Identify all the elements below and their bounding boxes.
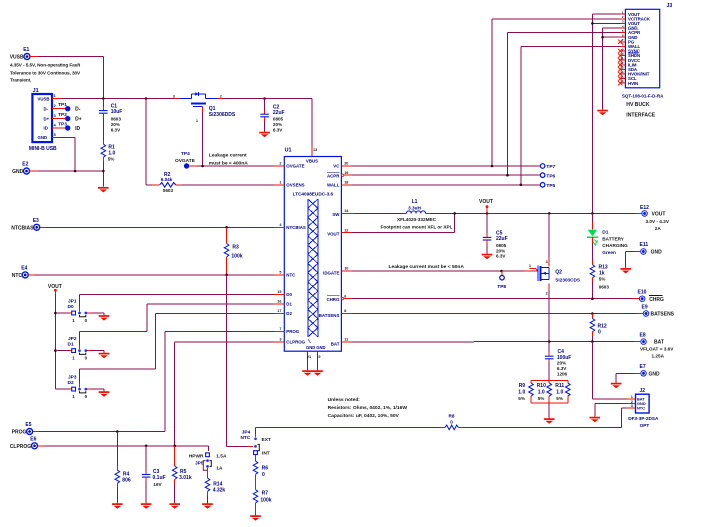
svg-text:D1: D1 (602, 230, 608, 236)
svg-text:11: 11 (344, 338, 348, 342)
test point TP6 (540, 173, 555, 180)
svg-text:CHRG: CHRG (649, 297, 664, 303)
svg-text:BATSENS: BATSENS (319, 313, 340, 318)
svg-text:5%: 5% (108, 156, 115, 161)
resistor R13 1k (590, 260, 609, 299)
node VOUT net label (power port) (479, 199, 493, 214)
svg-text:HPWR: HPWR (189, 453, 204, 459)
svg-text:Resistors: Ohms, 0402, 1%, 1/1: Resistors: Ohms, 0402, 1%, 1/16W (328, 405, 408, 411)
resistor R6 0 (253, 461, 268, 490)
node: R4/PROG junction (116, 430, 119, 433)
svg-text:0.1uF: 0.1uF (153, 475, 166, 481)
svg-text:5: 5 (54, 133, 56, 137)
jumper JP5 HPWR (189, 453, 227, 478)
svg-text:D1: D1 (286, 302, 292, 307)
svg-text:15: 15 (277, 290, 281, 294)
node VOUT net label (JP column) (48, 284, 62, 389)
wire J1 pin2 to TP1 (52, 108, 65, 110)
test point TP5 (540, 183, 555, 190)
svg-text:EXT: EXT (262, 437, 271, 443)
node: NTC/JP4 junction (225, 274, 228, 277)
transistor Q1 Si2306DDS (173, 92, 236, 123)
note: leakage current 400nA (209, 152, 248, 166)
svg-text:VUSB: VUSB (10, 55, 24, 61)
ground (C2) (259, 131, 270, 137)
wire IDGATE net (352, 270, 537, 272)
svg-text:1: 1 (54, 94, 56, 98)
svg-text:XFL4020-332MEC: XFL4020-332MEC (397, 217, 437, 222)
wire NTC down to JP4 common (227, 275, 253, 447)
terminal E4 (NTC) (12, 266, 28, 279)
wire E7 to ground (616, 373, 640, 382)
inductor L1 3.3uH (341, 199, 430, 213)
svg-text:SQT-108-01-F-D-RA: SQT-108-01-F-D-RA (622, 94, 664, 99)
wire NTC line to JP4 (256, 427, 446, 437)
svg-text:R6: R6 (262, 465, 269, 471)
node: OVGATE junction (201, 165, 204, 168)
svg-text:GND: GND (12, 169, 24, 175)
svg-text:E6: E6 (30, 437, 36, 443)
svg-text:R5: R5 (180, 469, 187, 475)
wire GND: E2 line (30, 170, 104, 172)
svg-text:VBUS: VBUS (306, 158, 318, 163)
svg-text:22uF: 22uF (273, 110, 285, 116)
svg-text:E7: E7 (640, 364, 646, 370)
svg-text:Tolerance to 30V Continous, 30: Tolerance to 30V Continous, 30V (10, 70, 81, 75)
test point TP1 (D-) (58, 102, 81, 112)
svg-text:GND: GND (38, 135, 48, 140)
transistor Q2 Si2303CDS (529, 213, 580, 341)
svg-text:3: 3 (173, 94, 175, 98)
ground (U1 pin9) (312, 370, 323, 376)
wire NTCBIAS net (40, 226, 274, 228)
ground (R14) (202, 503, 213, 509)
wire J1 pin1 VUSB stub (52, 98, 62, 100)
ground (C4/R10) (544, 418, 555, 424)
svg-text:2: 2 (279, 162, 281, 166)
svg-text:BAT: BAT (654, 340, 664, 346)
svg-text:CHRG: CHRG (326, 297, 340, 302)
svg-text:OVGATE: OVGATE (175, 158, 196, 164)
wire BAT to J2 pin1 (592, 342, 626, 399)
ground (J3 GND) (597, 109, 608, 115)
svg-text:GND: GND (649, 372, 661, 378)
svg-text:JP4: JP4 (242, 429, 251, 435)
note: L1 footprint (380, 217, 452, 229)
svg-text:ID: ID (44, 126, 48, 131)
svg-text:OVSENS: OVSENS (286, 183, 304, 188)
svg-text:20: 20 (344, 162, 348, 166)
svg-text:Q2: Q2 (555, 270, 562, 276)
svg-text:3.0V - 4.2V: 3.0V - 4.2V (646, 219, 670, 224)
svg-text:E1: E1 (23, 47, 29, 53)
svg-text:D0: D0 (68, 304, 74, 310)
svg-text:TP7: TP7 (546, 164, 555, 170)
svg-text:6.3V: 6.3V (273, 127, 283, 132)
ground (C5) (482, 253, 493, 259)
note: unless noted (328, 397, 408, 419)
svg-text:TP4: TP4 (181, 151, 190, 157)
svg-text:3.01k: 3.01k (179, 475, 192, 481)
svg-text:TP2: TP2 (58, 112, 67, 118)
svg-text:1.25A: 1.25A (652, 354, 665, 359)
svg-text:Si2303CDS: Si2303CDS (555, 278, 580, 283)
svg-text:16: 16 (277, 300, 281, 304)
svg-text:9: 9 (318, 355, 320, 359)
svg-text:Footprint can mount XFL or XPL: Footprint can mount XFL or XPL (380, 224, 452, 229)
svg-text:E12: E12 (640, 205, 649, 211)
op-amp/IC U1 LTC4098EUDC-3.6 (274, 148, 352, 352)
resistor R1 1.0 (101, 140, 116, 186)
svg-text:TP6: TP6 (546, 173, 555, 179)
svg-text:D+: D+ (44, 116, 50, 121)
wire CLPROG net (38, 342, 274, 451)
svg-text:5%: 5% (556, 396, 563, 401)
resistor R3 100k (224, 227, 242, 275)
svg-text:HVIN: HVIN (628, 81, 638, 86)
terminal E10 (CHRG) (638, 290, 665, 303)
node: R13/CHRG junction (591, 297, 594, 300)
svg-text:1.0: 1.0 (538, 389, 545, 395)
svg-text:OVGATE: OVGATE (286, 164, 304, 169)
svg-text:3.3uH: 3.3uH (408, 205, 421, 210)
wire VUSB: E1 to top rail (30, 57, 103, 99)
svg-text:PROG: PROG (286, 329, 300, 334)
svg-text:5%: 5% (538, 396, 545, 401)
wire J2 pin2 to ground (595, 404, 627, 416)
terminal E6 (CLPROG) (10, 437, 38, 450)
svg-text:0: 0 (598, 330, 601, 336)
resistor R9 1.0 (518, 380, 533, 403)
svg-text:CHARGING: CHARGING (602, 243, 628, 248)
svg-text:L1: L1 (412, 199, 418, 205)
wire PROG net (33, 332, 274, 432)
node: R12/BATSENS junction (591, 312, 594, 315)
resistor R2 6.04k (146, 172, 182, 193)
resistor R11 1.0 (555, 380, 570, 403)
svg-text:BAT: BAT (331, 342, 340, 347)
svg-text:0805: 0805 (273, 117, 284, 122)
svg-text:100k: 100k (260, 497, 271, 503)
svg-text:R9: R9 (519, 383, 526, 389)
ground (J2 GND) (590, 416, 601, 422)
resistor R8 0 (445, 414, 458, 430)
svg-text:17: 17 (277, 309, 281, 313)
svg-text:1.5A: 1.5A (216, 453, 227, 459)
node: WALL/J3 junction (520, 184, 523, 187)
svg-text:3: 3 (54, 114, 56, 118)
test point TP7 (540, 164, 555, 171)
wire J1 pin5 GND (52, 137, 75, 171)
node: VOUT column junctions (54, 312, 57, 352)
svg-text:BATSENS: BATSENS (651, 312, 675, 318)
ground (JP1) (99, 314, 110, 320)
wire VC line to TP7 (352, 165, 540, 167)
svg-text:R11: R11 (555, 383, 564, 389)
ground (E7) (611, 382, 622, 388)
svg-text:IDGATE: IDGATE (323, 271, 339, 276)
capacitor C5 22uF (483, 213, 508, 258)
node: J3 GND junction (601, 36, 604, 39)
svg-text:19: 19 (344, 171, 348, 175)
svg-text:18: 18 (344, 181, 348, 185)
wire D1 net (80, 304, 275, 345)
svg-text:VUSB: VUSB (38, 96, 50, 101)
svg-text:U1: U1 (285, 148, 292, 154)
svg-text:R3: R3 (232, 244, 239, 250)
ground (C1/R1) (98, 186, 109, 192)
ground (JP3) (99, 391, 110, 397)
svg-text:J3: J3 (667, 3, 673, 9)
capacitor C1 10uF (99, 99, 122, 141)
svg-text:ACPR: ACPR (327, 173, 340, 178)
wire J1 pin4 to TP3 (52, 127, 65, 129)
svg-text:ID: ID (75, 126, 80, 132)
wire J3 pin2 VC/TRACK to VC line (492, 19, 620, 166)
svg-text:BATTERY: BATTERY (602, 237, 624, 242)
wire J3 pin5 ACPR to ACPR line (508, 33, 621, 176)
svg-text:Capacitors: uF, 0402, 10%, 5: Capacitors: uF, 0402, 10%, 50V (328, 413, 400, 419)
jumper JP3 D2 (55, 374, 104, 399)
svg-text:CLPROG: CLPROG (286, 340, 305, 345)
ground (U1 pin21) (302, 370, 313, 376)
svg-text:E4: E4 (21, 266, 27, 272)
node: VC/J3 junction (491, 165, 494, 168)
terminal E2 (GND) (12, 162, 29, 176)
svg-text:DF3-3P-2DSA: DF3-3P-2DSA (628, 416, 659, 421)
svg-text:NTCBIAS: NTCBIAS (11, 225, 34, 231)
wire NTC net to U1 (28, 274, 274, 276)
svg-text:NTC: NTC (637, 405, 645, 410)
capacitor C4 100uF (545, 342, 571, 381)
svg-text:E8: E8 (640, 333, 646, 339)
svg-text:1.0: 1.0 (518, 389, 525, 395)
svg-text:0603: 0603 (163, 188, 174, 193)
svg-text:8: 8 (344, 309, 346, 313)
svg-text:5%: 5% (518, 396, 525, 401)
capacitor C2 22uF (260, 99, 284, 133)
terminal E1 (VUSB) (10, 47, 30, 61)
wire BATSENS net (352, 313, 643, 315)
wire J1 pin3 to TP2 (52, 118, 65, 120)
wire CHRG net (352, 298, 639, 300)
svg-text:5: 5 (279, 271, 281, 275)
svg-text:GND: GND (651, 250, 663, 256)
wire D2 net (80, 314, 275, 384)
ground (R5) (169, 503, 180, 509)
svg-text:13: 13 (313, 148, 317, 152)
svg-text:SW: SW (332, 212, 340, 217)
wire WALL line to TP5 (352, 184, 540, 186)
resistor R12 0 (590, 314, 607, 342)
wire E11 to ground (626, 252, 640, 268)
svg-text:0603: 0603 (599, 284, 610, 289)
svg-text:22uF: 22uF (496, 236, 508, 242)
jumper JP4 NTC select (240, 429, 270, 461)
terminal E3 (NTCBIAS) (11, 218, 39, 231)
svg-text:CLPROG: CLPROG (10, 444, 32, 450)
svg-text:R4: R4 (123, 471, 130, 477)
svg-text:GND: GND (316, 345, 325, 350)
svg-text:20%: 20% (273, 122, 282, 127)
svg-text:GND: GND (306, 345, 315, 350)
test point TP8 (497, 271, 506, 290)
ground (E11) (620, 267, 631, 273)
svg-text:1: 1 (279, 181, 281, 185)
wire U1 VOUT pin12 up to rail (352, 213, 455, 232)
svg-text:1.0: 1.0 (556, 389, 563, 395)
svg-text:NTC: NTC (240, 435, 250, 441)
test point TP3 (ID) (58, 122, 80, 133)
svg-text:2A: 2A (655, 226, 662, 231)
svg-text:PROG: PROG (12, 430, 27, 436)
wire OVGATE net (190, 165, 285, 167)
svg-text:R12: R12 (598, 323, 607, 329)
svg-text:OPT: OPT (640, 423, 650, 428)
test point TP2 (D+) (58, 112, 82, 123)
svg-text:E11: E11 (640, 242, 649, 248)
svg-text:6.04k: 6.04k (161, 177, 173, 182)
svg-text:16V: 16V (153, 482, 162, 487)
wire BAT net (352, 341, 640, 343)
svg-text:20%: 20% (557, 361, 566, 366)
svg-text:VOUT: VOUT (652, 212, 666, 218)
svg-text:INTERFACE: INTERFACE (626, 113, 655, 119)
svg-text:JP1: JP1 (68, 298, 77, 304)
svg-text:R10: R10 (537, 383, 546, 389)
svg-text:must be < 400nA: must be < 400nA (209, 160, 248, 166)
svg-text:4.32k: 4.32k (213, 487, 226, 493)
svg-text:TP8: TP8 (497, 284, 506, 290)
wire OVSENS vertical from VBUS rail (145, 99, 147, 185)
svg-text:0: 0 (262, 472, 265, 478)
node: R3/NTCBIAS junction (225, 226, 228, 229)
svg-text:TP5: TP5 (546, 183, 555, 189)
capacitor C3 0.1uF (142, 446, 166, 503)
svg-text:3: 3 (546, 260, 548, 264)
svg-text:Leakage current must be < 50nA: Leakage current must be < 50nA (389, 264, 465, 270)
svg-text:WALL: WALL (327, 183, 340, 188)
terminal E12 (VOUT) (640, 205, 670, 231)
resistor R4 806 (115, 432, 131, 503)
wire VOUT rail (430, 212, 641, 214)
svg-text:C3: C3 (153, 469, 160, 475)
ground (R7) (250, 515, 261, 521)
svg-text:Si2306DDS: Si2306DDS (209, 112, 236, 118)
terminal E11 (GND) (640, 242, 663, 256)
node: J3 VOUT junction (591, 22, 594, 25)
svg-text:6.3V: 6.3V (111, 127, 121, 132)
jumper JP1 D0 (55, 298, 104, 323)
svg-text:Unless noted:: Unless noted: (328, 397, 361, 403)
svg-text:J2: J2 (640, 388, 646, 394)
connector J1 MINI-B USB (29, 88, 57, 152)
svg-text:20%: 20% (496, 248, 505, 253)
terminal E5 (PROG) (12, 422, 33, 435)
node: VBUS junctions (102, 97, 266, 100)
resistor R5 3.01k (172, 446, 191, 503)
svg-text:0805: 0805 (496, 243, 507, 248)
note: input voltage tolerance (10, 62, 81, 82)
svg-text:D-: D- (75, 107, 81, 113)
wire OVSENS to U1 (182, 184, 284, 186)
node: J1 GND junction (74, 170, 77, 173)
terminal E8 (BAT) (640, 333, 675, 359)
svg-text:E5: E5 (25, 422, 31, 428)
svg-text:10uF: 10uF (111, 109, 123, 115)
resistor R7 100k (253, 490, 272, 515)
svg-text:R8: R8 (449, 414, 455, 419)
svg-text:E9: E9 (642, 305, 648, 311)
svg-text:0: 0 (450, 419, 453, 424)
svg-text:100k: 100k (231, 254, 242, 260)
wire VBUS top rail (62, 99, 312, 157)
svg-text:2: 2 (546, 291, 548, 295)
svg-text:TP3: TP3 (58, 122, 67, 128)
node: R1/E2 junction (102, 170, 105, 173)
svg-text:R7: R7 (262, 491, 269, 497)
svg-text:2: 2 (54, 104, 56, 108)
svg-text:NTC: NTC (12, 273, 23, 279)
wire ACPR line to TP6 (352, 174, 540, 176)
svg-text:1: 1 (196, 119, 198, 123)
wire Q1 gate to OVGATE (202, 106, 204, 166)
wire NTC from J2 pin3 (459, 408, 627, 428)
svg-text:J1: J1 (33, 88, 39, 94)
svg-text:VC: VC (333, 164, 340, 169)
svg-text:7: 7 (279, 327, 281, 331)
svg-text:MINI-B USB: MINI-B USB (29, 146, 57, 152)
svg-text:6.3V: 6.3V (496, 254, 506, 259)
resistor R14 4.32k (205, 478, 225, 503)
svg-text:NTC: NTC (286, 273, 296, 278)
node: BAT junctions (548, 340, 594, 343)
jumper JP2 D1 (55, 336, 104, 361)
resistor R10 1.0 (537, 380, 552, 403)
wire J3 pins4,6 GND (603, 28, 621, 109)
svg-text:21: 21 (307, 355, 311, 359)
node: TP8 junction (500, 270, 503, 273)
wire D0 net (80, 294, 275, 307)
test point TP4 (OVGATE) (175, 151, 196, 169)
svg-text:JP2: JP2 (68, 336, 77, 342)
ground (JP2) (99, 352, 110, 358)
svg-text:JP3: JP3 (68, 374, 77, 380)
svg-text:VOUT: VOUT (479, 199, 493, 205)
wire J3 pin8 WALL to WALL line (521, 46, 621, 184)
node: R5/CLPROG junction (173, 445, 176, 448)
svg-text:10: 10 (344, 267, 348, 271)
node: C3/CLPROG junction (145, 445, 148, 448)
svg-text:Leakage current: Leakage current (209, 152, 247, 158)
svg-text:2: 2 (220, 94, 222, 98)
svg-text:HV BUCK: HV BUCK (626, 102, 650, 108)
svg-text:6: 6 (344, 294, 346, 298)
svg-text:0603: 0603 (111, 116, 122, 121)
svg-text:E3: E3 (33, 218, 39, 224)
wire R9-R11 parallel buses (531, 380, 568, 417)
svg-text:6.3V: 6.3V (557, 366, 567, 371)
connector J3 SQT-108-01-F-D-RA (618, 3, 672, 118)
ground (C3) (141, 503, 152, 509)
svg-text:VFLOAT = 3.6V: VFLOAT = 3.6V (640, 347, 674, 352)
svg-text:5%: 5% (599, 277, 606, 282)
svg-text:D+: D+ (75, 117, 82, 123)
svg-text:D0: D0 (286, 292, 292, 297)
svg-text:LTC4098EUDC-3.6: LTC4098EUDC-3.6 (293, 191, 334, 196)
svg-text:Transient.: Transient. (10, 77, 31, 82)
svg-text:20%: 20% (111, 122, 120, 127)
